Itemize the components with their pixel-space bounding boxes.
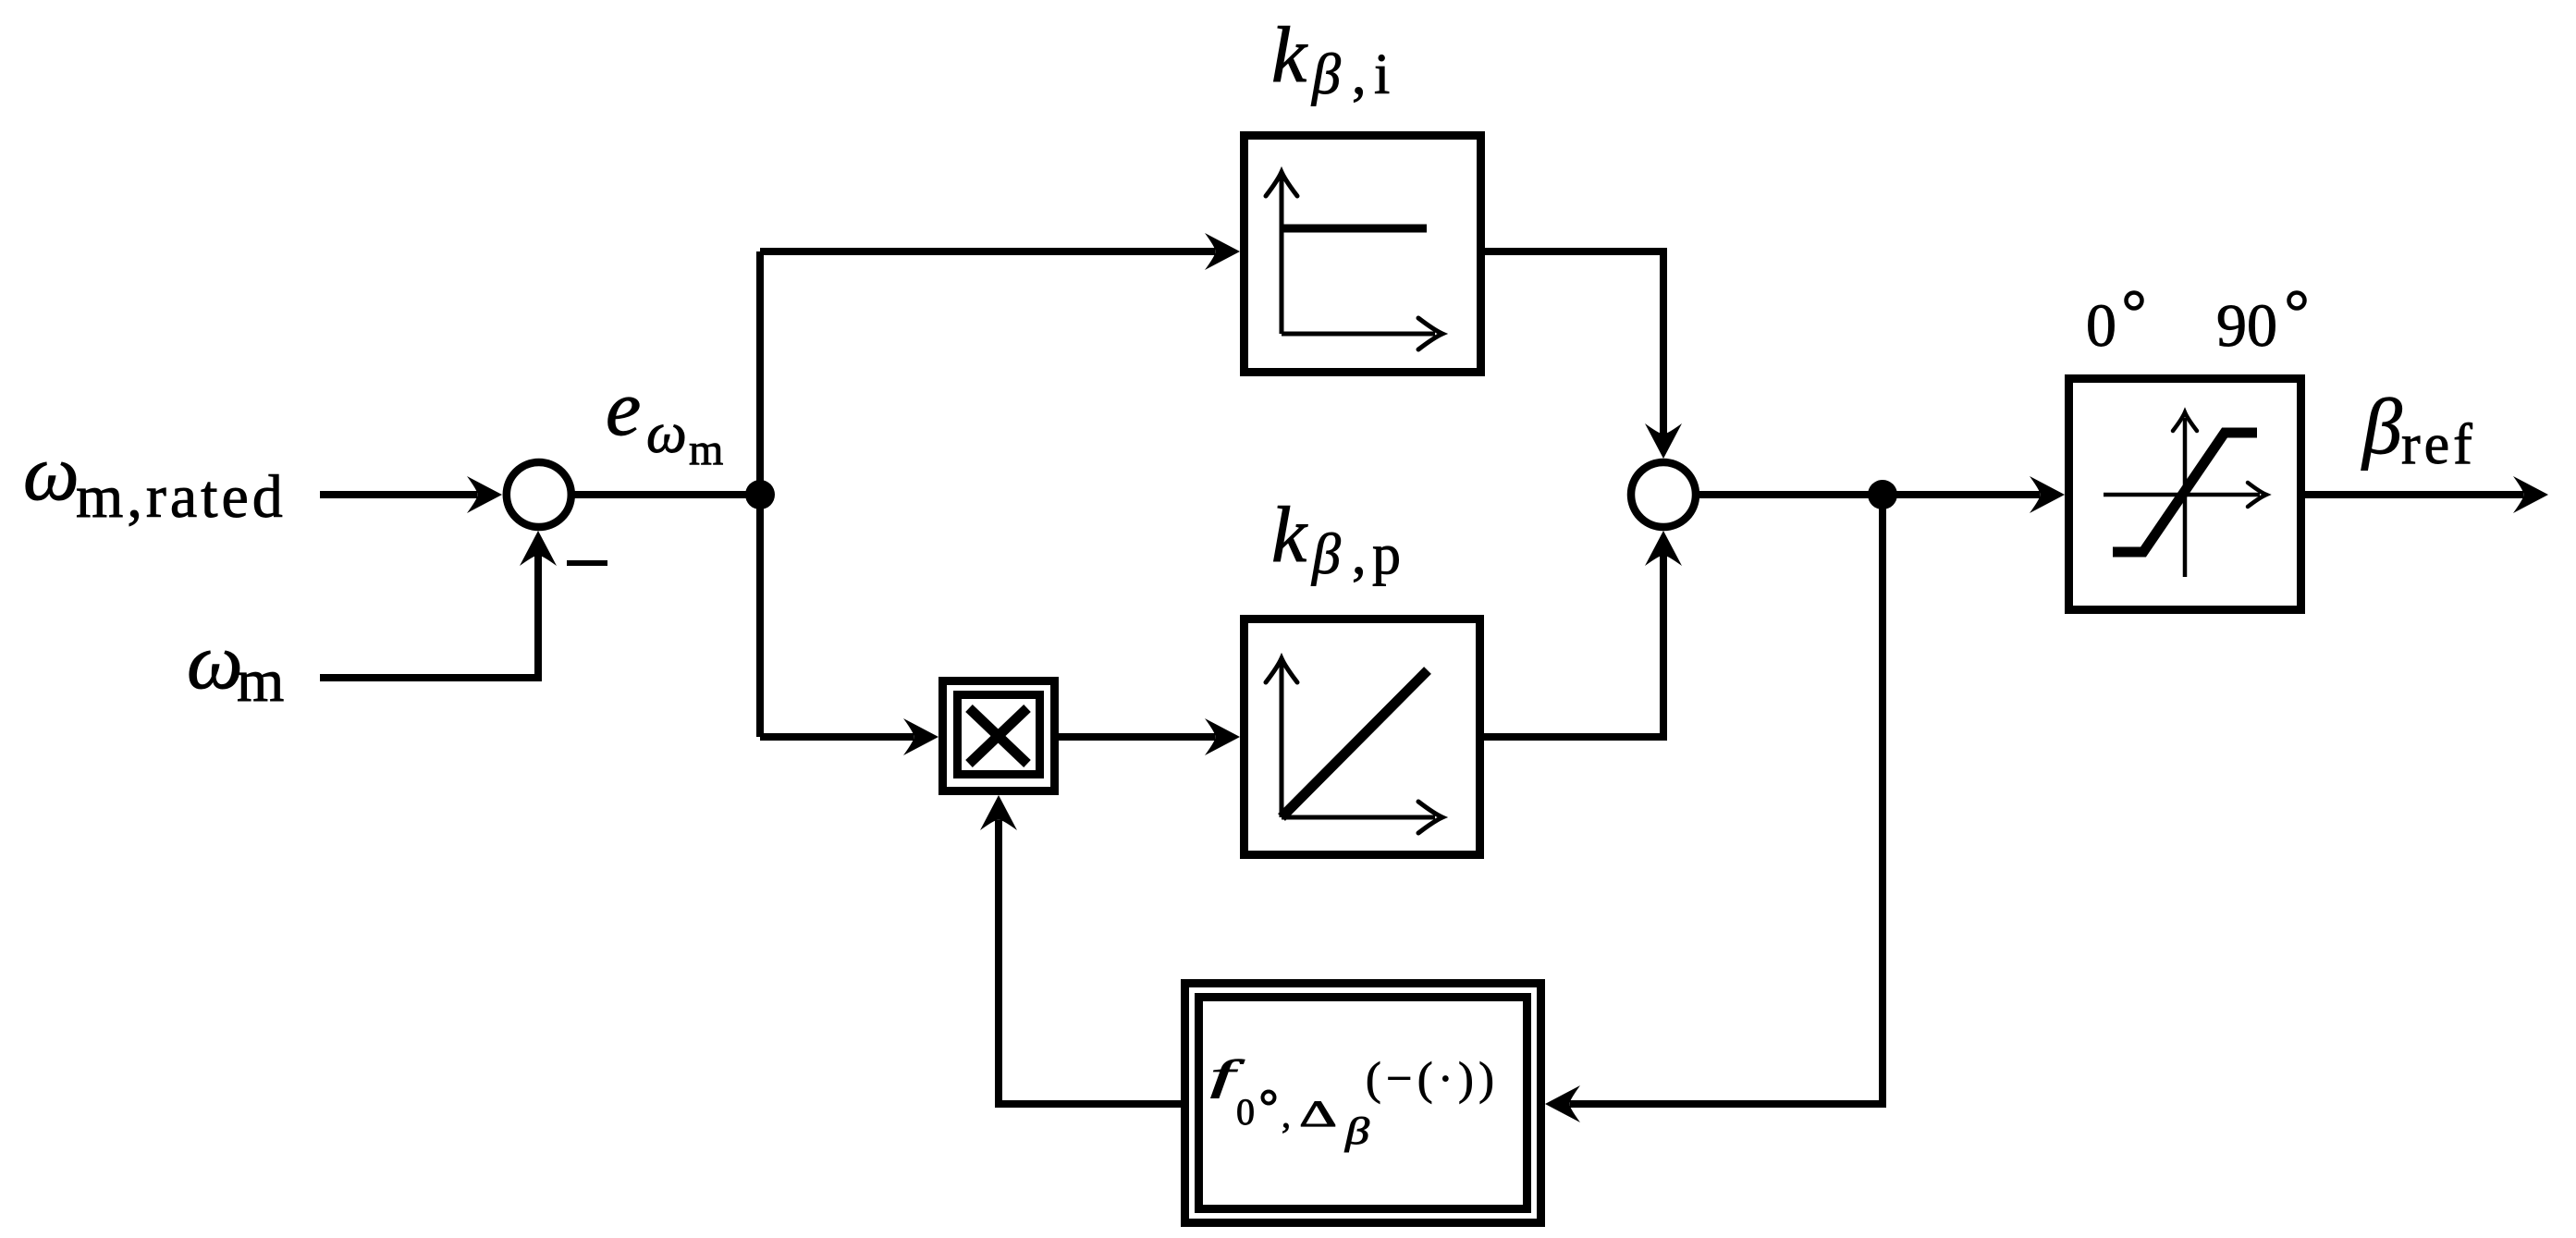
block k_beta_i: [1245, 136, 1481, 373]
svg-text:i: i: [1374, 43, 1390, 106]
wire N1 to block k_beta_i: [760, 248, 1215, 255]
minus sign at S1: [567, 560, 607, 566]
wire omega_m input: [320, 553, 538, 678]
arrow into S2 bottom: [1645, 531, 1682, 566]
svg-text:m: m: [237, 647, 284, 715]
saturation curve: [2113, 433, 2257, 552]
arrow into S2 top: [1645, 423, 1682, 459]
f block outer box: [1185, 984, 1541, 1223]
wire omega_m_rated input: [320, 491, 477, 498]
svg-text:,: ,: [1352, 523, 1367, 586]
svg-text:e: e: [606, 363, 641, 452]
arrow into multiplier bottom: [980, 795, 1017, 830]
wire S2 to node N2: [1696, 491, 1883, 498]
svg-text:0: 0: [2086, 292, 2116, 360]
wire k_beta_p to S2 bottom: [1484, 551, 1663, 737]
svg-text:ω: ω: [187, 617, 243, 705]
svg-text:(−(·)): (−(·)): [1366, 1052, 1499, 1104]
svg-text:Δ: Δ: [1299, 1093, 1337, 1134]
svg-text:k: k: [1271, 490, 1308, 579]
label omega_m_rated: [23, 428, 287, 531]
svg-text:k: k: [1271, 10, 1308, 99]
block k_beta_p: [1245, 619, 1480, 855]
label k_beta_i: [1271, 10, 1390, 106]
svg-text:,: ,: [1352, 43, 1367, 106]
arrow into multiplier: [903, 718, 938, 755]
arrow into f block right side: [1545, 1085, 1580, 1122]
wire multiplier to k_beta_p: [1059, 733, 1215, 741]
k_beta_i axes: [1266, 172, 1442, 349]
saturation axes: [2104, 412, 2266, 577]
k_beta_p diagonal gain line: [1282, 670, 1428, 817]
wire N1 to multiplier: [760, 733, 914, 741]
node N2: [1868, 480, 1897, 509]
wire N2 to saturation block: [1883, 491, 2040, 498]
label omega_m: [187, 617, 284, 715]
wire N2 feedback down and into f block: [1570, 495, 1883, 1104]
saturation block: [2069, 379, 2301, 610]
wire saturation to output: [2305, 491, 2523, 498]
svg-text:,: ,: [1282, 1094, 1291, 1135]
svg-text:β: β: [1311, 43, 1341, 106]
f block label: [1210, 1052, 1499, 1152]
svg-text:ω: ω: [646, 402, 687, 465]
f block inner box: [1199, 998, 1527, 1209]
wire S1 to node N1: [571, 491, 760, 498]
multiplier inner box: [958, 695, 1040, 775]
summing junction S1: [507, 462, 571, 527]
k_beta_p axes: [1266, 658, 1442, 833]
svg-text:β: β: [1311, 523, 1341, 586]
node N1: [745, 480, 775, 509]
wire k_beta_i to summing junction S2: [1485, 251, 1663, 438]
arrow into summing junction S1: [467, 476, 502, 513]
arrow into S1 bottom: [520, 531, 557, 566]
svg-text:β: β: [1344, 1109, 1370, 1152]
arrow into saturation block: [2030, 476, 2065, 513]
output arrowhead: [2513, 476, 2548, 513]
svg-text:ω: ω: [23, 428, 80, 517]
svg-text:β: β: [2361, 382, 2402, 471]
wire N1 vertical branch: [756, 251, 764, 737]
svg-text:p: p: [1372, 523, 1401, 586]
svg-text:m,rated: m,rated: [76, 463, 287, 531]
label e_omega_m: [606, 363, 723, 474]
wire f block output to multiplier bottom: [999, 820, 1181, 1104]
k_beta_i constant level line: [1282, 225, 1427, 233]
multiplier X: [969, 708, 1027, 764]
svg-text:m: m: [689, 425, 723, 474]
svg-text:0: 0: [1236, 1091, 1255, 1133]
label k_beta_p: [1271, 490, 1401, 586]
arrow into k_beta_i: [1205, 233, 1240, 270]
svg-text:90: 90: [2216, 292, 2277, 360]
summing junction S2: [1631, 462, 1696, 527]
svg-text:ref: ref: [2401, 413, 2476, 476]
arrow into k_beta_p: [1205, 718, 1240, 755]
label beta_ref: [2361, 382, 2476, 476]
multiplier outer box: [943, 681, 1055, 791]
